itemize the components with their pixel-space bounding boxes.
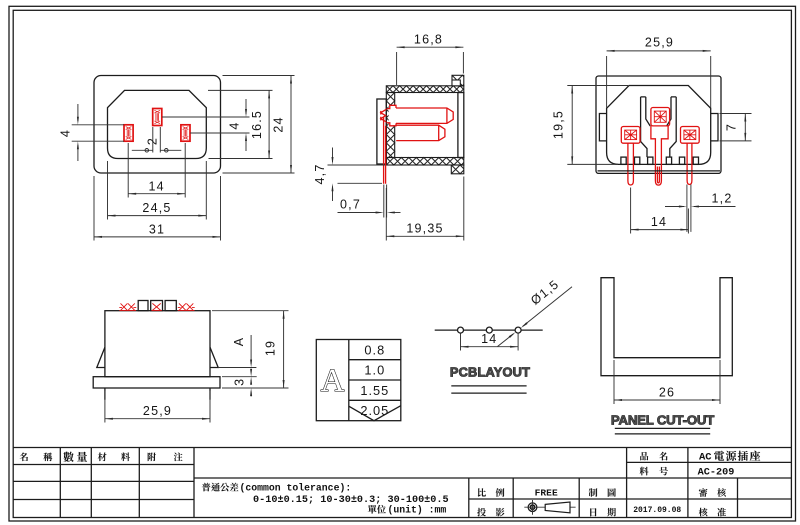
dim 25,9 bottom dimension line [105,418,210,420]
side view rear wall [458,93,464,158]
title block vertical lines of info cells [468,478,470,518]
svg-text:AC: AC [699,452,712,464]
dim 31 extension lines [93,176,95,241]
pcb layout hole right [515,327,521,333]
side view tab inner notch [452,80,460,86]
bottom view body edge hidden below flange (right) [209,388,211,400]
PANEL CUT-OUT caption double underline [615,427,710,429]
svg-text:1.0: 1.0 [364,363,385,378]
first angle projection symbol - cone [545,502,570,513]
front view line pin contact (left) [124,125,133,141]
svg-text:24: 24 [272,116,286,132]
dim 24,5 extension lines [107,161,109,220]
svg-text:31: 31 [149,222,165,236]
dim 24 dimension line [290,76,292,174]
dim 1,2 dimension line with outside arrows [665,206,684,208]
dim 4 left extension lines [72,124,124,126]
svg-text:19,5: 19,5 [552,110,566,139]
svg-text:2: 2 [145,137,159,145]
pcb layout hole left [458,327,464,333]
svg-text:25,9: 25,9 [143,404,172,418]
svg-text:2017.09.08: 2017.09.08 [633,506,681,515]
side view lower contact pin (red) [396,125,445,140]
dim 14 extension lines [630,188,632,234]
back view internal partition walls around earth contact [641,97,677,157]
parts list header - quantity [63,452,73,462]
svg-text:0.8: 0.8 [364,342,385,357]
dim 2 dimension line with outside arrows [132,149,153,151]
svg-text:3: 3 [233,378,247,386]
label scale [478,488,486,497]
dim 19 extension lines [212,310,289,312]
dim 4,7 dimension line with outside arrows [332,148,334,163]
dim 24,5 dimension line [108,215,207,217]
dim 4 right extension lines from pin centers [162,116,250,118]
svg-text:PCBLAYOUT: PCBLAYOUT [450,365,530,380]
hole diameter leader line [498,334,514,347]
title block horizontal line above tolerance note and scale row [194,477,791,479]
back view bottom rib teeth [621,157,626,164]
dim 7 extension lines [720,113,752,115]
dim 19,35 extension lines [385,188,387,241]
selection check mark on value 2.05 [349,406,401,421]
panel thickness table row lines [349,359,401,361]
svg-text:4: 4 [227,121,241,129]
dim 7 dimension line [744,114,746,141]
dim 19,5 extension lines [567,85,628,87]
svg-text:0,7: 0,7 [340,198,361,212]
pcb layout hole center [486,327,492,333]
front view socket outer body [94,76,221,174]
bottom view mounting flange plate [93,377,220,388]
svg-text:A: A [321,363,345,399]
svg-text:25,9: 25,9 [645,36,674,50]
dim 24 extension lines [223,75,295,77]
back view neutral pin tail projection lines (dark) [687,185,691,232]
back view earth pin solder tail (red) [651,126,668,185]
bottom view terminal block boxes on top edge [138,301,148,311]
svg-text:FREE: FREE [535,488,558,499]
cut-out dim 26 dimension line [614,399,720,401]
parts list table column lines [59,448,61,518]
bottom view body outline [105,311,210,377]
label date [590,508,596,516]
first angle projection symbol - center lines [524,500,575,515]
parts list header - part name [20,452,28,461]
back view rear cavity outline with chamfers [607,86,711,165]
label drawn by [589,488,598,497]
parts list header - remarks [148,452,156,461]
back view line pin terminal head (left, red) [621,127,640,144]
side view bottom-right tab hatched [451,165,464,174]
cut-out dim 26 extension lines [613,360,615,404]
svg-text:19,35: 19,35 [406,222,443,236]
back view rear body edge line [598,170,721,172]
svg-text:7: 7 [725,123,739,131]
svg-text:PANEL CUT-OUT: PANEL CUT-OUT [611,413,714,428]
svg-text:1.55: 1.55 [360,383,389,398]
front view inner cavity with chamfered corners [108,90,207,158]
svg-text:1,2: 1,2 [712,192,733,206]
dim 19,5 dimension line [571,86,573,165]
svg-text:14: 14 [149,180,165,194]
dim 4 left dimension line with outside arrows [77,104,79,121]
title block top border line [13,447,791,449]
panel cut-out U channel outline [601,278,732,376]
dim 0,7 dimension line with outside arrows [338,212,381,214]
dim 4,7 extension lines [328,164,386,166]
back view neutral pin solder tail (red) [687,143,692,184]
dim 25,9 dimension line [607,50,711,52]
side view upper pin wall opening [389,106,396,126]
side view solder leg below flange (section dark) [384,185,387,218]
dim 3 dimension line with outside arrows [250,380,252,385]
front view neutral pin contact (right) [181,125,190,141]
svg-text:16,8: 16,8 [414,33,443,47]
side view mounting flange plate [377,99,386,164]
tolerance note line 3 - unit mm [368,505,377,514]
label projection [477,508,486,517]
pcb dim 14 dimension line [461,346,519,348]
dim A dimension line with outside arrows [250,335,252,364]
side view left wall cross-section hatched [386,93,394,158]
dim 16,8 dimension line [397,46,464,48]
pcb dim 14 extension lines [460,334,462,351]
side view bottom wall cross-section hatched [386,158,464,166]
back view earth pin terminal head (center, red) [651,108,670,126]
svg-text:AC-209: AC-209 [698,468,735,479]
front view earth pin contact (center top) [153,109,162,126]
side view upper contact pin (red) [396,108,453,123]
bottom view neutral pin tip marks (red) [178,303,195,310]
dim 14 dimension line [631,229,689,231]
label part number [640,467,649,476]
side view bent-down solder leg (red) [384,117,386,184]
dim 14 extension lines from pins [127,143,129,198]
dim A extension line from latch bottom [218,367,256,369]
label product name [640,452,648,460]
dim 2 extension lines from earth pin [152,127,154,153]
svg-text:A: A [232,337,246,347]
dim 19,35 dimension line [386,235,464,237]
label approved by [699,508,708,517]
svg-text:19: 19 [264,340,278,356]
dim 14 dimension line [128,193,185,195]
dim 4 right dimension line with outside arrows [245,99,247,114]
title block horizontal line between scale and projection rows [469,498,792,500]
side view top wall cross-section hatched [386,86,464,93]
dim 16,8 extension lines [396,52,398,85]
first angle projection symbol - circles [528,503,537,512]
panel thickness table column divider [348,340,350,421]
dim A extension line from flange top [222,376,257,378]
tolerance note line 1 - common tolerance [202,483,211,492]
pcb layout reference line [435,329,543,331]
PCB LAYOUT caption double underline [451,385,526,387]
svg-text:4: 4 [59,129,73,137]
back view neutral pin terminal head (right, red) [681,127,700,144]
dim 19 dimension line [283,311,285,388]
back view line pin solder tail (red) [628,143,634,185]
dim 25,9 extension lines [606,56,608,108]
svg-text:26: 26 [659,386,675,400]
parts list table row lines [13,464,194,466]
panel thickness table outline [316,340,401,421]
bottom view right snap latch [210,347,218,367]
svg-text:24,5: 24,5 [142,201,171,215]
back view socket body outline [596,76,721,173]
svg-text:14: 14 [651,215,667,229]
title block product name row divider [627,461,792,463]
bottom view body edge hidden below flange (left) [104,388,106,400]
back view left mounting groove [599,114,606,141]
side view top-right locating tab hatched [452,75,464,86]
bottom view line pin tip marks (red) [119,303,136,310]
dim 16.5 dimension line [268,90,270,158]
parts list header - material [98,452,107,461]
bottom view earth pin tip marks (red) [151,303,161,310]
bottom view left snap latch [97,347,105,367]
svg-text:(common tolerance):: (common tolerance): [240,482,352,493]
label checked by [699,488,708,497]
dim 25,9 bottom extension lines [104,391,106,423]
svg-text:14: 14 [481,332,497,346]
svg-text:(unit) :mm: (unit) :mm [388,505,447,516]
svg-text:16.5: 16.5 [250,110,264,139]
back view right mounting groove [711,114,718,141]
svg-text:4,7: 4,7 [313,164,327,185]
dim 31 dimension line [94,236,221,238]
side view upper pin retention barbs (red) [387,105,396,126]
dim 16.5 extension lines [208,89,273,91]
